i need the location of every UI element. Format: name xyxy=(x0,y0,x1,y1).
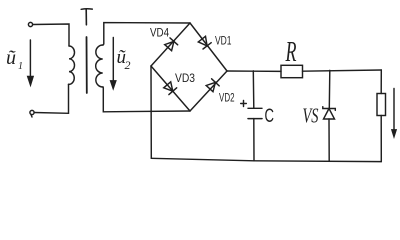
wire secondary top to bridge xyxy=(103,23,190,45)
capacitor C bottom lead xyxy=(253,119,255,161)
wire top-left to transformer primary xyxy=(33,24,69,46)
svg-text:C: C xyxy=(265,106,275,127)
zener diode VS top lead xyxy=(328,70,331,108)
voltage arrow u1 xyxy=(28,40,33,85)
wire bridge minus output to bottom rail xyxy=(150,66,152,158)
bridge rectifier diamond wires xyxy=(151,23,227,111)
svg-text:1: 1 xyxy=(18,61,23,72)
svg-text:ũ: ũ xyxy=(6,47,16,69)
transformer T secondary winding xyxy=(96,45,103,87)
zener diode VS symbol xyxy=(323,107,336,119)
label R xyxy=(285,36,297,68)
capacitor C plates xyxy=(248,108,262,118)
label VD3 xyxy=(175,71,195,85)
label u2 xyxy=(117,47,131,72)
output voltage arrow xyxy=(392,89,396,137)
terminal top-left xyxy=(28,22,32,26)
voltage arrow u2 xyxy=(111,38,116,89)
label VD1 xyxy=(215,34,232,48)
svg-text:VD2: VD2 xyxy=(219,91,235,105)
terminal bottom-left xyxy=(30,110,34,117)
label VD4 xyxy=(150,26,169,40)
diode VD4 xyxy=(165,38,178,51)
load resistor bottom lead xyxy=(380,116,382,162)
svg-text:VS: VS xyxy=(303,104,319,128)
diode VD2 xyxy=(206,79,219,92)
diode VD1 xyxy=(198,36,211,49)
resistor R xyxy=(281,65,303,77)
svg-text:VD4: VD4 xyxy=(150,26,169,40)
label u1 xyxy=(6,47,23,72)
wire secondary bottom to bridge xyxy=(103,87,190,112)
transformer T primary winding xyxy=(69,46,75,84)
wire bridge plus output to resistor R xyxy=(227,70,281,72)
svg-text:2: 2 xyxy=(125,58,131,72)
svg-text:VD1: VD1 xyxy=(215,34,232,48)
label VS xyxy=(303,104,319,128)
label VD2 xyxy=(219,91,235,105)
zener diode VS bottom lead xyxy=(328,119,330,161)
load resistor body xyxy=(377,94,386,116)
capacitor plus sign xyxy=(241,101,247,107)
svg-text:R: R xyxy=(285,36,297,68)
svg-text:VD3: VD3 xyxy=(175,71,195,85)
capacitor C top lead xyxy=(252,71,255,108)
transformer core xyxy=(86,37,88,93)
label T xyxy=(81,9,92,25)
bottom rail wire xyxy=(151,158,381,161)
label C xyxy=(265,106,275,127)
wire R to load corner xyxy=(303,70,382,71)
wire bottom-left to transformer primary xyxy=(34,84,68,113)
load resistor top lead xyxy=(380,70,382,94)
diode VD3 xyxy=(164,82,177,95)
